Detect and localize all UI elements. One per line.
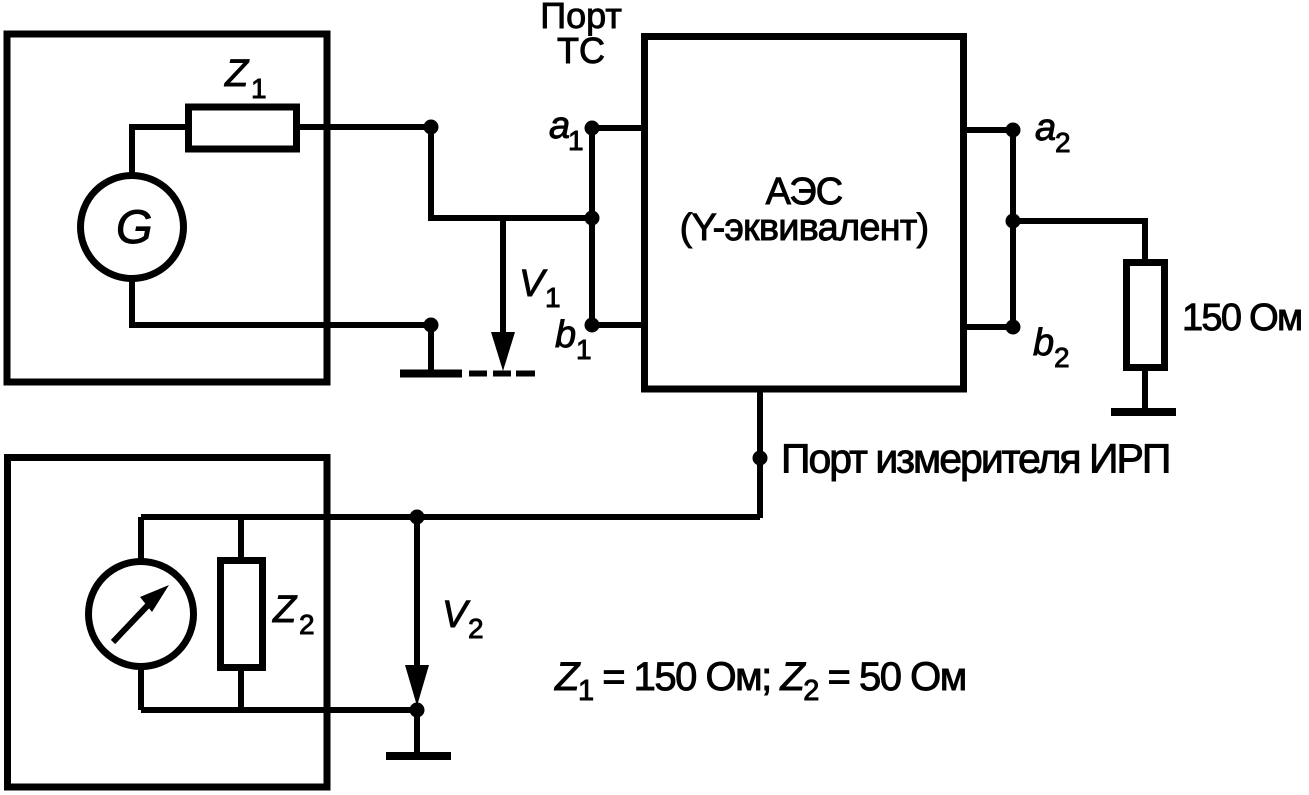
wire node to ground bbox=[414, 710, 420, 752]
ground bar bottom bbox=[386, 752, 451, 760]
svg-text:b: b bbox=[555, 314, 576, 356]
node a1 bbox=[585, 121, 600, 136]
svg-text:V: V bbox=[519, 263, 548, 305]
right bus bbox=[1010, 130, 1016, 327]
wire node A down and right to TC bus bbox=[431, 127, 592, 218]
svg-text:1: 1 bbox=[545, 282, 561, 313]
wire G bottom to node B bbox=[132, 278, 431, 325]
port TC bus bbox=[589, 128, 595, 325]
wire Z2 top bbox=[238, 517, 244, 562]
svg-text:1: 1 bbox=[251, 73, 267, 104]
wire b1 stub bbox=[592, 322, 648, 328]
wire AES bottom port bbox=[757, 389, 763, 518]
meter box (bottom-left enclosure) bbox=[8, 458, 328, 788]
generator G1 bbox=[81, 176, 184, 279]
node mid right bbox=[1006, 214, 1021, 229]
resistor R load 150 Ом bbox=[1127, 263, 1165, 368]
meter needle bbox=[113, 603, 150, 642]
node port IRP bbox=[753, 451, 768, 466]
wire b2 stub bbox=[960, 324, 1013, 330]
resistor Z1 bbox=[189, 107, 297, 149]
svg-text:a: a bbox=[1035, 107, 1056, 149]
node b2 bbox=[1006, 320, 1021, 335]
wire G top to Z1 bbox=[132, 127, 190, 176]
generator box (top-left enclosure) bbox=[7, 34, 327, 382]
V1 arrow bbox=[500, 218, 506, 335]
svg-text:V: V bbox=[442, 594, 471, 636]
resistor Z2 bbox=[221, 561, 263, 668]
svg-text:150 Ом: 150 Ом bbox=[1182, 297, 1301, 339]
dashed ground line bbox=[469, 371, 487, 377]
svg-text:Z: Z bbox=[224, 53, 250, 95]
meter M1 bbox=[89, 562, 194, 667]
svg-text:G: G bbox=[116, 200, 153, 253]
svg-text:2: 2 bbox=[1055, 127, 1071, 158]
ground bar right bbox=[1111, 408, 1176, 416]
svg-text:Порт измерителя ИРП: Порт измерителя ИРП bbox=[781, 436, 1169, 482]
wire bottom return bbox=[141, 707, 417, 713]
node a2 bbox=[1006, 123, 1021, 138]
node B bbox=[424, 318, 439, 333]
svg-text:1: 1 bbox=[568, 125, 584, 156]
node V2 top bbox=[410, 510, 425, 525]
svg-text:a: a bbox=[549, 105, 570, 147]
svg-text:2: 2 bbox=[299, 609, 315, 640]
node b1 bbox=[585, 318, 600, 333]
svg-text:2: 2 bbox=[1054, 342, 1070, 373]
node A bbox=[424, 120, 439, 135]
svg-text:b: b bbox=[1033, 322, 1054, 364]
wire meter bottom bbox=[138, 663, 144, 710]
ground bar bbox=[400, 370, 462, 378]
svg-text:Z: Z bbox=[272, 589, 298, 631]
AES box U1 bbox=[645, 37, 964, 390]
wire bottom horizontal to meter bbox=[141, 514, 760, 520]
V2 arrow bbox=[414, 517, 420, 668]
svg-text:1: 1 bbox=[576, 334, 592, 365]
svg-text:(Y-эквивалент): (Y-эквивалент) bbox=[680, 207, 929, 249]
wire node B to ground bbox=[428, 325, 434, 370]
wire resistor to ground bbox=[1142, 367, 1148, 409]
svg-text:ТС: ТС bbox=[557, 30, 605, 71]
wire Z1 to node A bbox=[296, 124, 431, 130]
wire a2 stub bbox=[960, 127, 1013, 133]
wire meter top bbox=[138, 517, 144, 565]
node mid TC bbox=[585, 211, 600, 226]
wire to load resistor bbox=[1013, 221, 1145, 263]
node V2 bottom bbox=[410, 703, 425, 718]
wire Z2 bottom bbox=[238, 666, 244, 710]
svg-text:2: 2 bbox=[468, 613, 484, 644]
wire a1 stub bbox=[592, 125, 648, 131]
